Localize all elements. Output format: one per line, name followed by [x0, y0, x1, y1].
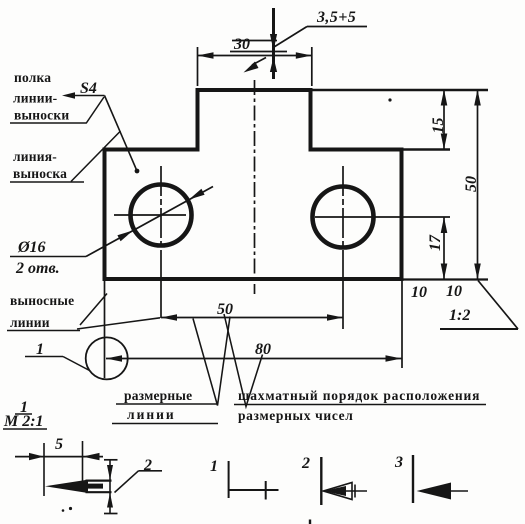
magnified dim line thickness (double line) — [86, 480, 112, 482]
svg-text:полка: полка — [14, 70, 51, 85]
svg-text:размерные: размерные — [124, 388, 192, 403]
part outline — [105, 90, 402, 279]
hook arrow at dimension line — [252, 58, 266, 66]
pointer V to numbers 50 and 80 — [224, 314, 263, 407]
note 1:2 leader — [478, 281, 518, 330]
dimension 50 right — [477, 90, 479, 280]
svg-text:S4: S4 — [80, 80, 97, 97]
svg-text:17: 17 — [427, 234, 444, 251]
extension line right of dim 30 — [311, 47, 313, 86]
pointer from label to shelf — [86, 97, 104, 124]
svg-text:2: 2 — [301, 455, 310, 472]
dimension 50 bottom — [161, 317, 343, 319]
svg-text:1: 1 — [36, 341, 44, 358]
detail circle 1 — [86, 337, 128, 379]
part vertical axis (dash-dot) — [254, 80, 256, 294]
pointer to hole centerline extension — [77, 318, 160, 329]
magnified detail: extension line B — [82, 441, 84, 481]
top-left scan mark — [388, 98, 391, 101]
dimension 80 — [106, 358, 402, 360]
svg-text:линия-: линия- — [13, 149, 57, 164]
extension line right edge downward — [401, 281, 403, 368]
dimension 15 — [443, 90, 445, 150]
svg-text:Ø16: Ø16 — [17, 239, 46, 256]
svg-text:линии-: линии- — [13, 91, 57, 106]
digit height measuring vertical — [272, 8, 275, 79]
svg-text:линии: линии — [127, 407, 176, 422]
left hole horizontal centerline — [114, 214, 186, 216]
left hole vertical centerline / extension — [160, 166, 162, 278]
thickness measuring vertical with arrows — [109, 460, 111, 515]
svg-text:выноска: выноска — [13, 166, 67, 181]
page bottom tick — [309, 520, 311, 524]
svg-text:выносные: выносные — [10, 293, 74, 308]
svg-text:1: 1 — [210, 458, 218, 475]
right hole horizontal centerline + extension for dim 17 — [315, 216, 450, 218]
extension line left edge downward — [104, 281, 106, 378]
dimension 17 — [443, 217, 445, 280]
hole circle left — [131, 185, 192, 246]
svg-text:3,5+5: 3,5+5 — [316, 9, 356, 26]
noise dots — [62, 509, 65, 512]
svg-text:выноски: выноски — [14, 108, 69, 123]
shelf (polka) with S4 — [66, 95, 105, 97]
svg-text:линии: линии — [10, 315, 50, 330]
svg-text:5: 5 — [55, 436, 63, 453]
magnified line core — [86, 484, 103, 489]
svg-text:50: 50 — [463, 176, 480, 192]
svg-text:шахматный порядок расположения: шахматный порядок расположения — [238, 388, 480, 403]
magnified big arrow — [45, 480, 88, 493]
extension line left of dim 30 — [197, 47, 199, 86]
extension line bottom edge to the right — [402, 278, 488, 280]
pointer V to dimension line 50 — [193, 317, 230, 406]
digit height guide line top — [232, 40, 277, 42]
svg-text:10: 10 — [446, 283, 462, 300]
pointer to left edge extension — [80, 294, 107, 326]
hole circle right — [313, 187, 374, 248]
svg-text:размерных чисел: размерных чисел — [238, 408, 354, 423]
magnified detail: dim line 5 with outside arrows — [15, 456, 103, 458]
pointer from label to leader line — [71, 131, 121, 182]
leader line (liniya-vynoska) from shelf into part — [105, 96, 138, 172]
svg-text:30: 30 — [233, 36, 250, 53]
right hole vertical centerline / extension — [342, 166, 344, 278]
svg-text:М 2:1: М 2:1 — [3, 413, 44, 430]
svg-text:2 отв.: 2 отв. — [15, 260, 60, 277]
svg-text:3: 3 — [394, 454, 403, 471]
digit height guide line bottom — [230, 51, 287, 53]
extension line step edge to the right — [402, 148, 450, 150]
magnified detail: extension line A — [43, 443, 45, 496]
svg-text:1:2: 1:2 — [449, 307, 470, 324]
extension line top edge to the right — [311, 89, 489, 92]
leader of diameter through left hole — [86, 187, 213, 257]
svg-text:10: 10 — [411, 284, 427, 301]
dimension line 30 — [198, 55, 312, 57]
svg-text:15: 15 — [430, 118, 447, 134]
